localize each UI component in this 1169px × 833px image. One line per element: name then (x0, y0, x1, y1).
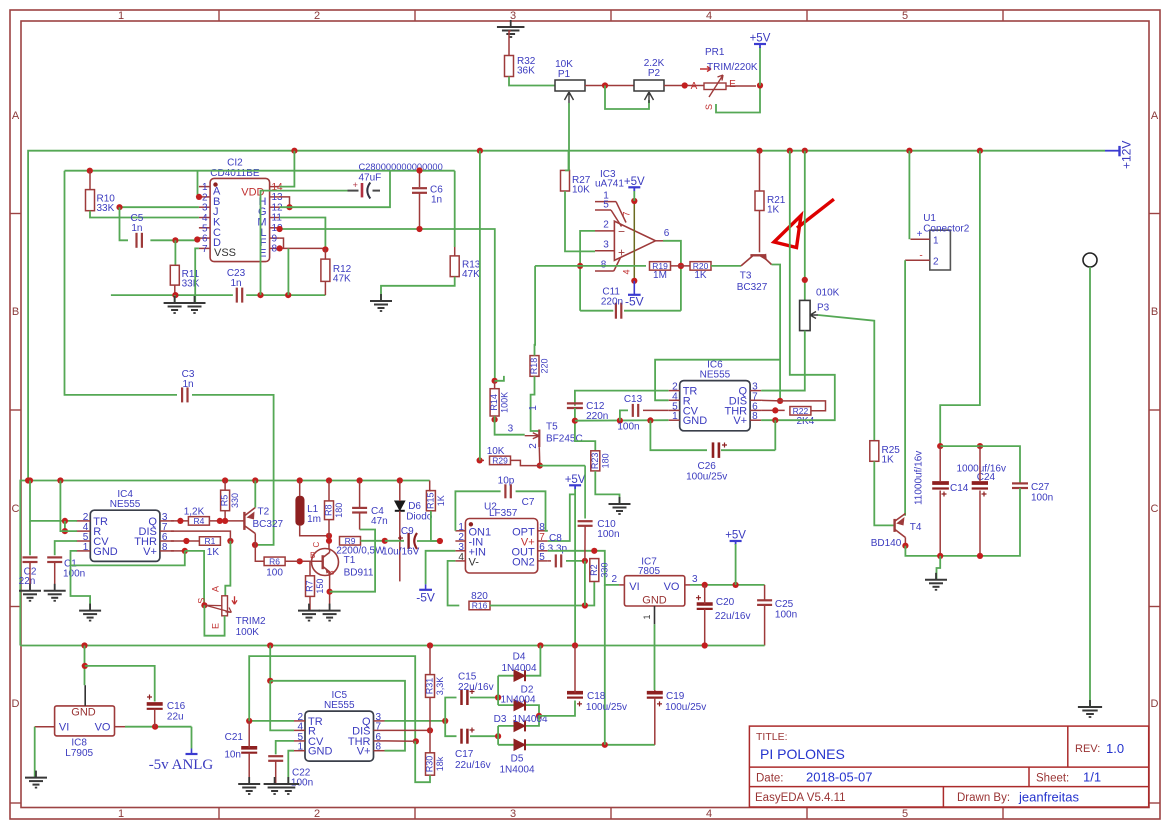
svg-text:D5: D5 (511, 754, 524, 765)
svg-text:D3: D3 (494, 714, 507, 725)
junction P3 top (802, 277, 808, 283)
junction +5V IC7 (733, 582, 739, 588)
ground (near title block) (1078, 700, 1102, 717)
wire C24 top lead (979, 446, 981, 481)
svg-text:100n: 100n (597, 529, 619, 540)
svg-text:100u/25v: 100u/25v (665, 702, 706, 713)
junction C9/pin2 (437, 538, 443, 544)
+12V net flag (1105, 141, 1134, 169)
resistor R6 (264, 557, 285, 579)
wire D6 down (399, 511, 401, 582)
wire +5V riser (IC7) (735, 544, 737, 585)
wire T2 collector down (255, 534, 264, 562)
inductor L1 (296, 496, 321, 525)
svg-text:VO: VO (664, 581, 680, 593)
junction mid rail left (25, 477, 31, 483)
wire rail to R31 (429, 646, 431, 675)
wire R9 right (361, 540, 385, 542)
svg-text:E: E (729, 79, 736, 90)
wire R12 leads (324, 248, 326, 259)
wire TR row (249, 720, 294, 722)
wire pin5 to C8 (548, 560, 551, 562)
resistor R20 (690, 261, 711, 281)
svg-text:4: 4 (706, 808, 712, 820)
wire C20 top (704, 585, 706, 604)
wire R25 to T4 (874, 461, 894, 525)
wire R8 bottom (328, 520, 330, 549)
junction mid rail T2 (252, 477, 258, 483)
junction R/V+ node (267, 678, 273, 684)
svg-text:2: 2 (314, 10, 320, 22)
wire pin14 to rail (280, 151, 295, 187)
wire V+ to C26 (774, 420, 776, 450)
wire R18 to T5 drain (531, 376, 540, 431)
svg-text:5: 5 (902, 808, 908, 820)
annotation red arrow (774, 199, 834, 247)
wire C28 left (261, 191, 348, 296)
svg-text:C: C (1151, 503, 1159, 515)
wire rail to R21 (759, 151, 761, 191)
junction THR/R22 (772, 407, 778, 413)
wire D4/D2 column (497, 676, 499, 705)
wire loop bottom left (580, 310, 613, 312)
junction IC3 pin4 (631, 278, 637, 284)
wire +5V column down (574, 494, 576, 645)
IC IC8 L7905 (35, 685, 125, 759)
wire GND row (575, 419, 669, 422)
wire C12 top to TR (575, 391, 669, 406)
svg-text:C9: C9 (401, 526, 414, 537)
capacitor C19 (647, 691, 706, 713)
resistor R25 (870, 441, 900, 466)
IC IC6 NE555 (669, 360, 761, 431)
wire net A corner down to R13 (454, 171, 456, 247)
svg-text:1M: 1M (653, 270, 667, 281)
wire DIS row (385, 729, 431, 731)
wire VI column (604, 585, 606, 745)
wire pin13 tie (280, 197, 290, 207)
wire R22 loop to DIS (780, 401, 825, 411)
junction +12V rail-C14 feed (977, 148, 983, 154)
ground (VSS CI2) (184, 296, 206, 313)
junction T2 collector (252, 542, 258, 548)
svg-text:2: 2 (603, 220, 609, 231)
svg-text:TRIM2: TRIM2 (236, 616, 266, 627)
wire P2 to PR1 (664, 85, 704, 87)
wire U1 pin2 down to T4 (904, 260, 906, 516)
wire R32 top (509, 31, 511, 56)
capacitor C21 (224, 732, 257, 761)
svg-text:1: 1 (297, 742, 303, 753)
wire bank to ground (937, 556, 941, 580)
svg-text:2: 2 (933, 257, 939, 268)
svg-text:T1: T1 (344, 555, 356, 566)
svg-text:5: 5 (539, 552, 545, 563)
wire rail to R8 (328, 481, 330, 501)
junction C6 top (416, 167, 422, 173)
junction R9/C9 (382, 538, 388, 544)
wire R23 to ground (595, 471, 619, 504)
svg-text:R8: R8 (324, 504, 334, 516)
svg-text:R18: R18 (529, 358, 539, 375)
svg-text:1: 1 (528, 405, 539, 411)
svg-text:5: 5 (603, 200, 609, 211)
wire GND to C26 (650, 420, 707, 450)
svg-text:R5: R5 (220, 495, 230, 507)
capacitor C22 (268, 756, 313, 788)
svg-text:100n: 100n (1031, 493, 1053, 504)
capacitor C18 (567, 691, 627, 713)
svg-text:1: 1 (672, 411, 678, 422)
wire C24 bottom (979, 491, 981, 556)
junction bottom rail C18 (572, 642, 578, 648)
junction D5/VI col (602, 742, 608, 748)
svg-text:BF245C: BF245C (546, 434, 583, 445)
wire R6 row (264, 560, 299, 562)
wire mid +V rail (20, 481, 429, 646)
junction P2-PR1 (682, 82, 688, 88)
wire R14 hook (495, 376, 504, 381)
junction +12V rail-P3 (802, 148, 808, 154)
junction R12 top (322, 246, 328, 252)
transistor T2 BC327 (244, 507, 283, 534)
wire PR1 E to +5V column (726, 85, 756, 87)
junction V+ node (772, 417, 778, 423)
wire pin9 tie (280, 238, 284, 248)
ground (cap bank) (925, 573, 947, 590)
svg-text:A: A (1151, 110, 1159, 122)
wire C23 row (111, 294, 233, 296)
op-amp IC3 uA741 (595, 169, 670, 281)
svg-text:1N4004: 1N4004 (499, 765, 534, 776)
wire R20 to T3 (711, 265, 741, 267)
svg-text:BD140: BD140 (871, 538, 902, 549)
wire pin6 loop right (663, 241, 681, 311)
svg-text:+5V: +5V (725, 530, 746, 542)
svg-text:1,2K: 1,2K (184, 507, 205, 518)
svg-text:VI: VI (59, 722, 69, 734)
svg-text:jeanfreitas: jeanfreitas (1018, 790, 1079, 805)
junction IC3 pin7 (631, 198, 637, 204)
svg-text:C20: C20 (716, 597, 735, 608)
wire OUT row (548, 551, 619, 585)
junction pin2 tie (62, 518, 68, 524)
capacitor C3 (182, 369, 195, 402)
svg-text:4: 4 (458, 552, 464, 563)
svg-text:TITLE:: TITLE: (756, 731, 788, 743)
wire +5V to PR1 (759, 47, 761, 86)
wire C6 bottom (419, 193, 421, 229)
wire C10 top (584, 466, 586, 519)
label R29 value (487, 446, 505, 457)
svg-text:GND: GND (308, 746, 333, 758)
wire R29 row (480, 459, 484, 461)
svg-text:1K: 1K (436, 495, 446, 506)
junction R14 bottom (492, 417, 498, 423)
capacitor C5 (131, 213, 144, 248)
wire rail to U1 pin1 (908, 151, 910, 240)
junction bottom rail R31 (427, 642, 433, 648)
wire pin8 row (280, 247, 326, 249)
label D3 1N4004 (512, 714, 547, 725)
svg-text:22u/16v: 22u/16v (458, 682, 494, 693)
wire R18 top (534, 266, 537, 356)
svg-text:E: E (211, 623, 221, 629)
wire rail to pin4 (60, 481, 77, 532)
wire C20 bottom (704, 609, 706, 646)
capacitor C26 (686, 442, 727, 482)
wire pin10 long row (280, 229, 495, 381)
svg-text:Date:: Date: (756, 773, 784, 785)
svg-text:T2: T2 (258, 507, 270, 518)
ground (below R11) (164, 296, 186, 313)
transistor T5 BF245C (508, 405, 583, 449)
svg-text:C280000000000000: C280000000000000 (359, 162, 443, 172)
wire rail to IC5 R/V+ (269, 646, 271, 681)
svg-text:22n: 22n (19, 576, 36, 587)
svg-text:1: 1 (83, 542, 89, 553)
wire C10 bottom (584, 526, 586, 561)
wire P2 bottom loop (605, 86, 649, 110)
svg-text:22u: 22u (167, 712, 184, 723)
wire C15 right (470, 697, 498, 699)
svg-text:EasyEDA V5.4.11: EasyEDA V5.4.11 (755, 792, 846, 804)
diode D4 (501, 652, 536, 682)
svg-text:ON2: ON2 (512, 556, 535, 568)
wire C14 top lead (939, 446, 941, 481)
svg-text:C: C (12, 503, 20, 515)
junction R19-R20 (678, 263, 684, 269)
svg-text:3.3p: 3.3p (548, 544, 568, 555)
wire pin2-pin4 tie (64, 521, 66, 531)
label R4 value (184, 507, 205, 518)
wire C18 link (539, 701, 575, 716)
svg-text:100K: 100K (236, 627, 260, 638)
wire pin8 under-box (70, 551, 185, 566)
junction R11/C23 row (172, 292, 178, 298)
wire C21 top (248, 721, 250, 748)
svg-text:BC327: BC327 (737, 282, 768, 293)
svg-text:22u/16v: 22u/16v (715, 611, 751, 622)
resistor R1 (199, 536, 220, 558)
svg-text:1n: 1n (230, 278, 241, 289)
wire C13 right (643, 409, 669, 411)
resistor R30 (425, 753, 446, 775)
wire R19 to R20 (671, 265, 691, 267)
wire R feed (270, 681, 294, 731)
svg-text:1n: 1n (431, 195, 442, 206)
wire D5 row (498, 744, 655, 746)
svg-text:CI2: CI2 (227, 158, 243, 169)
-5v ANLG net flag (149, 749, 214, 774)
svg-text:+: + (917, 229, 923, 240)
svg-text:C18: C18 (587, 691, 606, 702)
svg-text:R23: R23 (590, 453, 600, 470)
svg-text:4: 4 (297, 721, 303, 732)
wire R7 ground lead (309, 596, 311, 610)
svg-text:+12V: +12V (1120, 141, 1134, 169)
junction pin10 stub (277, 226, 283, 232)
svg-text:+5V: +5V (565, 474, 586, 486)
terminal circle (1083, 253, 1097, 267)
svg-text:1/1: 1/1 (1083, 770, 1101, 785)
svg-text:+5V: +5V (750, 33, 771, 45)
svg-text:3: 3 (692, 574, 698, 585)
junction mid rail D6 (397, 477, 403, 483)
wire R21 to T3 (759, 211, 761, 253)
svg-text:47K: 47K (462, 269, 480, 280)
capacitor C13 (617, 394, 642, 433)
svg-text:3: 3 (510, 808, 516, 820)
resistor R29 (490, 456, 511, 466)
junction pin8 V+ (182, 548, 188, 554)
wire C25 top (764, 585, 766, 600)
wire D2 row (498, 705, 539, 716)
wire GND pin1 path (288, 751, 294, 784)
capacitor C11 (601, 287, 623, 319)
wire THR row (171, 540, 199, 542)
label R22 value (797, 416, 815, 427)
svg-text:C25: C25 (775, 599, 794, 610)
wire R29 right jog (511, 460, 540, 465)
svg-text:C26: C26 (698, 461, 717, 472)
svg-text:47K: 47K (333, 274, 351, 285)
wire C27 bottom (980, 488, 1020, 556)
svg-text:NE555: NE555 (700, 370, 731, 381)
wire R15 to C9 node (431, 511, 440, 541)
svg-text:V+: V+ (357, 746, 371, 758)
svg-text:T4: T4 (910, 522, 922, 533)
wire C25 bottom (764, 605, 766, 646)
junction C8/C10 (582, 558, 588, 564)
junction +12V rail-CI2 pin14 (291, 148, 297, 154)
svg-text:47n: 47n (371, 516, 388, 527)
wire V+ pin8 (171, 550, 185, 552)
wire IC8 feed (84, 646, 86, 686)
junction +12V rail-R27 column (477, 148, 483, 154)
resistor R16 (469, 601, 490, 611)
svg-text:VI: VI (629, 581, 639, 593)
junction TR/C21 (246, 718, 252, 724)
wire C12 bottom to R23 (575, 408, 595, 451)
ground (C22) (264, 777, 286, 794)
svg-text:330: 330 (230, 493, 240, 508)
svg-text:C21: C21 (225, 732, 244, 743)
wire R13 bottom to ground (381, 277, 455, 301)
wire C14 feed (940, 151, 980, 446)
label R16 value (471, 591, 488, 602)
resistor R10 (86, 190, 116, 214)
svg-text:R2: R2 (589, 564, 599, 576)
svg-text:100K: 100K (500, 392, 510, 413)
transistor T1 BD911 (300, 542, 374, 579)
junction Q stub (177, 518, 183, 524)
wire IC6 R loop to DIS (655, 360, 780, 401)
resistor R21 (755, 191, 786, 216)
capacitor C6 (412, 185, 443, 206)
wire Q out row (171, 520, 244, 522)
svg-text:T3: T3 (740, 271, 752, 282)
wire P1 wiper down to R27 (568, 103, 570, 170)
svg-text:NE555: NE555 (110, 499, 141, 510)
wire T1 collector (329, 549, 331, 553)
svg-text:1n: 1n (131, 223, 142, 234)
junction OUT/R2 (591, 548, 597, 554)
junction Q pump node (442, 718, 448, 724)
capacitor C25 (757, 599, 797, 621)
+5V flag (IC7) (725, 530, 746, 546)
wire C17 right (470, 735, 498, 737)
resistor R23 (590, 451, 611, 471)
junction mid rail C2 feed (27, 477, 33, 483)
resistor R22 (790, 406, 811, 416)
wire pin8 down leg (287, 248, 289, 295)
svg-text:100n: 100n (617, 422, 639, 433)
junction C6 bottom (416, 226, 422, 232)
diode D6 (395, 501, 433, 523)
svg-text:C: C (312, 542, 321, 548)
capacitor C14 (914, 451, 969, 505)
wire C2 column (30, 481, 77, 521)
svg-text:REV:: REV: (1075, 743, 1100, 755)
wire C7 loop (455, 491, 500, 531)
wire rail corner to R15 (430, 481, 431, 491)
-5V net flag (IC3) (625, 281, 644, 309)
wire C19 bottom (654, 698, 656, 745)
junction +12V rail-U1 (906, 148, 912, 154)
svg-text:2K4: 2K4 (797, 416, 815, 427)
svg-text:100n: 100n (775, 610, 797, 621)
junction R9 left (326, 538, 332, 544)
junction T5 source (537, 463, 543, 469)
wire DIS ext (761, 399, 780, 402)
wire VO row (690, 584, 765, 586)
wire C1 ground lead (54, 562, 56, 591)
svg-text:1n: 1n (182, 379, 193, 390)
junction VO/C16 (152, 724, 158, 730)
ground (C21) (238, 777, 260, 794)
junction C5/R11 (172, 237, 178, 243)
svg-text:Sheet:: Sheet: (1036, 773, 1069, 785)
svg-text:10u/16V: 10u/16V (382, 547, 420, 558)
resistor R19 (650, 261, 671, 281)
wire THR row (761, 409, 785, 411)
ground (R23) (609, 497, 631, 514)
resistor R5 (220, 490, 241, 511)
wire TRIM2 S stub (204, 604, 221, 606)
wire C21/THR link (249, 656, 415, 741)
svg-text:330: 330 (599, 563, 609, 578)
svg-text:1: 1 (118, 10, 124, 22)
wire pin1 gnd path (71, 551, 91, 611)
wire Q to P3 column (761, 390, 805, 392)
wire rail to C4 (359, 481, 361, 508)
svg-text:7805: 7805 (638, 566, 661, 577)
svg-text:820: 820 (471, 591, 488, 602)
resistor R18 (529, 356, 550, 377)
junction +12V rail-T3 loop (787, 148, 793, 154)
svg-text:Diodo: Diodo (406, 512, 433, 523)
svg-text:R30: R30 (425, 756, 435, 773)
svg-text:100: 100 (266, 567, 283, 578)
junction bottom rail IC8 branch (81, 642, 87, 648)
junction DIS node (777, 398, 783, 404)
junction R16/C8 col (582, 602, 588, 608)
wire C3 right (192, 395, 274, 545)
svg-text:R22: R22 (793, 406, 809, 416)
wire THR ext (385, 740, 416, 742)
junction loop/R19 (678, 263, 684, 269)
